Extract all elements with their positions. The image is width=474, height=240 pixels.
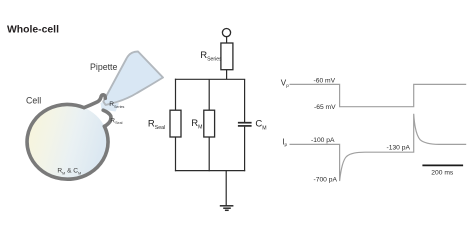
svg-text:RSeries: RSeries [200, 50, 222, 63]
svg-text:Ip: Ip [282, 138, 287, 148]
trace V_p (voltage step) [290, 84, 467, 106]
svg-text:Cell: Cell [26, 96, 41, 106]
cell membrane arc with pipette gap + upper seal hook [27, 95, 108, 179]
svg-text:RM & CM: RM & CM [57, 168, 81, 176]
svg-text:-130 pA: -130 pA [387, 145, 411, 152]
wire top bus to R_M [208, 79, 210, 110]
scale bar 200 ms [422, 164, 463, 166]
svg-text:200 ms: 200 ms [431, 170, 454, 177]
capacitor C_M [238, 123, 252, 126]
wire C_M to bottom bus [244, 127, 246, 172]
svg-text:RSeal: RSeal [148, 118, 165, 131]
wire top bus [175, 78, 245, 80]
svg-text:CM: CM [255, 119, 266, 132]
electrode terminal [222, 28, 230, 36]
svg-text:Whole-cell: Whole-cell [7, 24, 59, 35]
wire R_M to bottom bus [208, 137, 210, 171]
svg-text:-100 pA: -100 pA [311, 137, 335, 144]
svg-text:-65 mV: -65 mV [314, 104, 336, 111]
svg-text:-700 pA: -700 pA [314, 177, 338, 184]
resistor R_Series [221, 43, 233, 70]
svg-text:Pipette: Pipette [90, 62, 117, 72]
wire top bus to C_M [244, 79, 246, 122]
svg-text:RM: RM [191, 118, 202, 131]
pipette [101, 52, 164, 112]
resistor R_M [204, 110, 215, 137]
wire R_Series to top bus [226, 70, 228, 80]
wire terminal to R_Series [226, 37, 228, 43]
ground [220, 206, 234, 211]
wire bottom bus [175, 170, 245, 172]
wire bottom bus to ground [225, 171, 227, 206]
membrane lower seal hook [103, 110, 111, 126]
trace I_p (current response) [290, 114, 467, 181]
cell interior fill [27, 104, 108, 179]
wire top bus to R_Seal [175, 79, 177, 111]
svg-text:RSeal: RSeal [110, 117, 122, 125]
svg-text:-60 mV: -60 mV [314, 77, 336, 84]
svg-text:Vp: Vp [281, 79, 289, 89]
resistor R_Seal [170, 110, 181, 137]
wire R_Seal to bottom bus [175, 137, 177, 171]
